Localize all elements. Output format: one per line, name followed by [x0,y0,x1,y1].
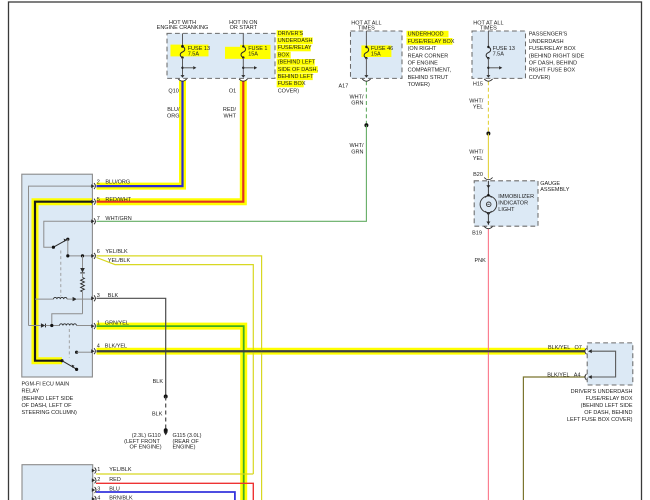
svg-text:RIGHT FUSE BOX: RIGHT FUSE BOX [529,68,576,74]
svg-text:BLK/YEL: BLK/YEL [105,344,127,350]
fuse 1 symbol (driver's box right) [241,33,246,75]
wire BLK/YEL core [97,350,586,352]
right box A4 connector + internal arrow [585,374,592,380]
wire BLK dashed segment to ground [165,397,167,431]
fuse 13 symbol (passenger's box) [486,31,491,75]
wire WHT/YEL solid (to B20) [487,134,489,179]
text: fuse 1 15A label [248,46,267,57]
relay internal: switch 2 arm [60,359,78,371]
relay pin 6 connector [91,253,95,259]
ECM pin 1 connector [92,468,96,474]
svg-text:7: 7 [97,216,100,222]
text: ground labels [124,433,201,451]
wire YEL/BLK second (relay pin 6, down to ECM pin 1 wire) [97,258,254,475]
svg-text:PGM-FI ECU MAIN: PGM-FI ECU MAIN [22,382,70,388]
svg-text:BLU/: BLU/ [167,107,180,113]
gauge assembly B20 entry connector + arrow [484,178,492,197]
relay internal: switch 1 arm [52,238,70,249]
text: fuse 46 15A label [371,46,393,57]
relay internal: switch 2 fixed contact to pin 4 [75,351,92,354]
svg-text:BEHIND LEFT: BEHIND LEFT [278,74,314,80]
svg-text:15A: 15A [248,52,258,58]
svg-text:ORG: ORG [167,113,180,119]
svg-text:BRN/BLK: BRN/BLK [109,495,133,500]
driver's underdash fuse/relay box (bottom right, dashed) [587,343,633,385]
wire GRN/YEL core [97,326,244,500]
text: right box caption [567,389,633,423]
ECM pin 3 connector [92,487,96,493]
relay internal: pin 6 line [68,255,92,257]
svg-text:RED/: RED/ [223,107,237,113]
wire YEL/BLK (ECM pin 1) [96,473,253,475]
wire RED/WHT core [97,81,244,202]
svg-text:O7: O7 [575,345,582,351]
PGM-FI ECU main relay box [22,174,93,377]
text: immobilizer indicator light [498,194,534,213]
svg-text:WHT/: WHT/ [349,143,364,149]
gauge assembly B19 exit arrow + connector [484,212,492,228]
wire RED/WHT highlighted band (O1 to relay pin 5) [97,81,244,202]
splice node on WHT/GRN [364,123,368,127]
relay internal: pin 2 feed line [29,186,93,325]
svg-text:4: 4 [97,495,100,500]
right box internal bus O7 to A4 [592,351,616,377]
wire RED (ECM pin 2) [96,483,253,500]
svg-text:TIMES: TIMES [358,26,375,32]
svg-text:FUSE BOX: FUSE BOX [278,81,306,87]
wire YEL/BLK first (relay pin 6 right, down) [97,256,262,500]
svg-text:BLK: BLK [153,379,164,385]
relay internal: switch 1 contact to pin 6 line [67,239,69,256]
svg-text:H15: H15 [473,82,483,88]
svg-text:UNDERDASH: UNDERDASH [278,38,313,44]
svg-text:COVER): COVER) [529,75,551,81]
svg-text:3: 3 [97,293,100,299]
svg-text:OF ENGINE: OF ENGINE [408,61,439,67]
passenger fuse exit arrow + connector H15 [484,75,492,81]
highlight patch: FUSE 46 15A [361,45,391,57]
relay internal: dashed link coil 2 to switch 2 [68,329,70,358]
svg-text:(BEHIND LEFT SIDE: (BEHIND LEFT SIDE [22,396,74,402]
svg-text:ENGINE): ENGINE) [173,444,196,450]
svg-text:OF DASH, BEHIND: OF DASH, BEHIND [529,61,577,67]
text: BLK/YEL O7 [548,345,582,351]
svg-text:UNDERDASH: UNDERDASH [529,39,564,45]
svg-text:A17: A17 [339,83,349,89]
svg-text:OR START: OR START [230,25,258,31]
wire BLU (ECM pin 3) [96,492,235,500]
relay pin 1 connector [91,323,95,329]
highlight patch: FUSE 13 7.5A [171,45,209,57]
svg-text:4: 4 [97,344,100,350]
ECM pin 4 connector [92,496,96,500]
fuse 13 exit arrow + connector Q10 [178,75,186,81]
svg-text:YEL/BLK: YEL/BLK [109,467,132,473]
svg-text:A4: A4 [574,373,581,379]
svg-text:WHT/: WHT/ [469,150,484,156]
wire WHT/GRN dashed segment (A17 down) [365,81,367,125]
svg-text:DRIVER'S UNDERDASH: DRIVER'S UNDERDASH [571,389,633,395]
gauge assembly box (dashed) [474,181,538,226]
highlight patches: driver's box description text [277,30,318,87]
wire BLU/ORG highlighted band (Q10 to relay pin 2) [97,81,183,186]
text: driver's underdash box description [278,31,319,95]
svg-text:7.5A: 7.5A [493,52,505,58]
svg-text:BLK/YEL: BLK/YEL [548,345,570,351]
svg-text:STEERING COLUMN): STEERING COLUMN) [22,410,77,416]
svg-text:YEL: YEL [473,105,483,111]
relay interior highlighted path core [35,202,92,361]
svg-text:REAR CORNER: REAR CORNER [408,53,449,59]
passenger's underdash fuse/relay box (dashed) [472,31,526,78]
svg-text:DRIVER'S: DRIVER'S [278,31,304,37]
svg-text:(BEHIND LEFT SIDE: (BEHIND LEFT SIDE [581,403,633,409]
svg-text:WHT: WHT [223,113,236,119]
svg-text:2: 2 [97,180,100,186]
relay internal: coil L2 line (pin 2 feed to pin 1) [29,323,93,327]
text: relay caption [22,382,77,416]
relay internal: dashed link switch 1 to coil 1 [60,251,62,297]
svg-text:YEL/BLK: YEL/BLK [108,258,131,264]
svg-text:BLU: BLU [109,487,120,493]
text: connector pins [168,82,483,95]
text: ECM pin labels [97,467,133,500]
relay pin 5 connector [91,199,95,205]
highlight patches: underhood box description text [407,31,453,45]
svg-text:RELAY: RELAY [22,389,40,395]
relay pin 2 connector [91,183,95,189]
text: BLU/ORG wire label [167,107,180,119]
wire BLU/ORG core [97,81,183,186]
svg-text:RED: RED [109,477,121,483]
relay internal: junction on pin 6 line [81,254,84,257]
wire BLK/YEL core overdraw at crossings [97,350,586,352]
svg-text:TIMES: TIMES [480,26,497,32]
splice node on BLK [164,395,168,399]
ground node dot [164,428,168,432]
svg-text:FUSE/RELAY BOX: FUSE/RELAY BOX [408,39,455,45]
svg-text:YEL: YEL [473,156,483,162]
relay internal: branch from resistor to coil 2 junction [52,314,83,326]
svg-text:1: 1 [97,320,100,326]
svg-text:BLK/YEL: BLK/YEL [547,373,569,379]
svg-text:GRN/YEL: GRN/YEL [105,320,129,326]
svg-text:WHT/GRN: WHT/GRN [105,216,131,222]
wire WHT/GRN solid (to relay pin 7) [97,125,367,221]
text: passenger's box description [529,32,585,81]
svg-text:WHT/: WHT/ [349,94,364,100]
svg-text:BOX: BOX [278,52,290,58]
text: BLK/YEL A4 [547,373,580,379]
text: RED/WHT wire label [223,107,237,119]
svg-text:GRN: GRN [351,101,363,107]
svg-text:B19: B19 [472,230,482,236]
relay interior highlighted path band (pin 5 to switch) [35,202,92,361]
svg-text:OF DASH, BEHIND: OF DASH, BEHIND [584,410,632,416]
svg-text:RED/WHT: RED/WHT [105,197,131,203]
svg-text:COVER): COVER) [278,88,300,94]
text: relay pin labels [97,180,132,350]
svg-text:3: 3 [97,487,100,493]
svg-text:PNK: PNK [474,258,486,264]
wire WHT/YEL dashed segment (H15 down) [487,81,489,133]
svg-text:BLK: BLK [152,411,163,417]
fuse 13 symbol (driver's box left) [180,33,185,75]
svg-text:GRN: GRN [351,149,363,155]
svg-text:(ON RIGHT: (ON RIGHT [408,46,437,52]
svg-text:LIGHT: LIGHT [498,207,515,213]
fuse 46 symbol (underhood box) [364,31,369,75]
svg-text:YEL/BLK: YEL/BLK [105,249,128,255]
text: underhood box description [408,32,455,88]
svg-text:(BEHIND LEFT: (BEHIND LEFT [278,60,316,66]
driver's underdash fuse/relay box (top left, dashed) [167,33,275,78]
text: gauge assembly [540,181,570,193]
relay pin 7 connector [91,218,95,224]
wire BLK/YEL highlighted band (relay pin 4 to O7) [97,348,586,355]
svg-text:FUSE/RELAY BOX: FUSE/RELAY BOX [586,396,633,402]
fuse 1 branch arrow [242,66,257,69]
svg-text:IMMOBILIZER: IMMOBILIZER [498,194,534,200]
svg-text:OF DASH, LEFT OF: OF DASH, LEFT OF [22,403,73,409]
passenger fuse branch arrow [487,66,502,69]
relay pin 3 connector [91,295,95,301]
splice node on WHT/YEL [486,132,490,136]
svg-text:6: 6 [97,249,100,255]
svg-text:OF ENGINE): OF ENGINE) [129,444,161,450]
svg-text:WHT/: WHT/ [469,98,484,104]
underhood fuse/relay box (dashed) [351,31,403,78]
svg-text:2: 2 [97,477,100,483]
highlight patch: FUSE 1 15A [225,47,240,59]
wire BLK (relay pin 3 to ground) [97,298,166,396]
wire PNK (B19 down) [487,229,489,500]
wire BLK/YEL unhighlighted (A4 to bottom) [523,377,585,500]
svg-text:GAUGE: GAUGE [540,181,560,187]
svg-text:15A: 15A [371,52,381,58]
svg-text:FUSE/RELAY: FUSE/RELAY [278,45,312,51]
immobilizer indicator light bulb [480,194,497,215]
relay internal: pin 7 line to switch pivot [44,221,92,247]
svg-text:5: 5 [97,197,100,203]
fuse 46 exit arrow + connector A17 [362,75,370,81]
text: fuse 13 7.5A label (passenger) [493,46,515,57]
svg-text:ASSEMBLY: ASSEMBLY [540,187,570,193]
text: feed labels top [157,20,504,31]
fuse 1 exit arrow + connector O1 [239,75,247,81]
svg-text:ENGINE CRANKING: ENGINE CRANKING [157,25,209,31]
right box O7 connector + internal arrow [585,348,592,354]
svg-text:SIDE OF DASH,: SIDE OF DASH, [278,67,319,73]
text: fuse 13 7.5A label [188,46,210,57]
svg-text:PASSENGER'S: PASSENGER'S [529,32,568,38]
svg-text:7.5A: 7.5A [188,52,200,58]
svg-text:TOWER): TOWER) [408,82,430,88]
ground G110/G115 arrow symbol [164,432,168,436]
svg-text:1: 1 [97,467,100,473]
text: WHT/GRN wire labels [349,94,364,106]
svg-text:LEFT FUSE BOX COVER): LEFT FUSE BOX COVER) [567,417,633,423]
svg-text:O1: O1 [229,88,236,94]
svg-text:Q10: Q10 [168,88,178,94]
wire GRN/YEL highlighted band (relay pin 1 down) [97,326,244,500]
relay internal: diode D1 (vertical) [80,256,85,273]
relay pin 4 connector [91,348,95,354]
svg-text:BLU/ORG: BLU/ORG [105,180,130,186]
ECM pin 2 connector [92,477,96,483]
svg-text:BLK: BLK [108,293,119,299]
relay internal: coil L1 line (pin 5 tap to pin 3) [35,297,92,301]
fuse 13 branch arrow [181,66,196,69]
ECM/PCM box (bottom, cut off) [22,465,93,500]
relay internal: resistor R1 (vertical zigzag) [81,273,85,314]
svg-text:FUSE/RELAY BOX: FUSE/RELAY BOX [529,46,576,52]
svg-text:COMPARTMENT,: COMPARTMENT, [408,68,452,74]
svg-text:INDICATOR: INDICATOR [498,201,528,207]
svg-text:BEHIND STRUT: BEHIND STRUT [408,75,449,81]
svg-text:(BEHIND RIGHT SIDE: (BEHIND RIGHT SIDE [529,53,585,59]
svg-text:UNDERHOOD: UNDERHOOD [408,32,444,38]
text: WHT/YEL wire labels [469,98,484,110]
svg-text:B20: B20 [473,172,483,178]
